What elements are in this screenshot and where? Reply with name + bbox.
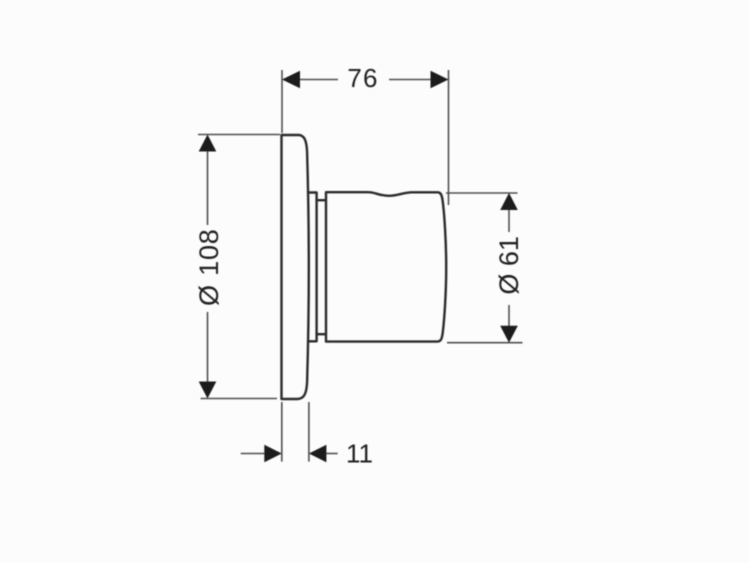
- svg-text:Ø 108: Ø 108: [194, 228, 224, 306]
- svg-text:Ø 61: Ø 61: [494, 236, 524, 295]
- svg-text:76: 76: [347, 63, 378, 93]
- svg-text:11: 11: [346, 439, 373, 469]
